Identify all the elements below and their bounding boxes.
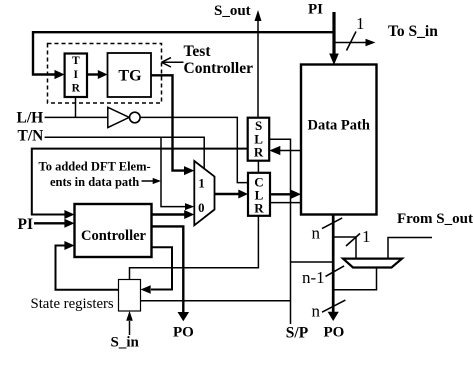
svg-text:State registers: State registers — [31, 296, 114, 312]
svg-text:0: 0 — [198, 201, 204, 215]
svg-text:To added DFT Elem-: To added DFT Elem- — [39, 160, 151, 174]
svg-text:Controller: Controller — [81, 228, 147, 244]
svg-text:R: R — [72, 83, 81, 95]
svg-text:Data Path: Data Path — [308, 117, 370, 133]
svg-text:T/N: T/N — [18, 128, 44, 145]
svg-text:n-1: n-1 — [302, 268, 325, 287]
svg-text:R: R — [254, 201, 264, 216]
svg-text:PI: PI — [308, 2, 323, 18]
svg-text:ents in data path: ents in data path — [50, 175, 139, 189]
svg-text:n: n — [312, 224, 321, 243]
svg-text:To S_in: To S_in — [388, 23, 438, 40]
svg-text:PO: PO — [173, 325, 194, 341]
svg-text:Controller: Controller — [184, 60, 254, 77]
svg-text:1: 1 — [198, 177, 204, 191]
svg-text:PO: PO — [324, 325, 345, 341]
svg-text:n: n — [312, 302, 321, 321]
svg-text:L/H: L/H — [17, 110, 44, 127]
svg-text:From S_out: From S_out — [397, 211, 473, 227]
svg-text:1: 1 — [362, 227, 371, 246]
svg-text:1: 1 — [356, 14, 365, 33]
svg-text:PI: PI — [18, 216, 34, 233]
svg-text:S_out: S_out — [214, 3, 251, 19]
svg-text:S/P: S/P — [286, 325, 309, 342]
svg-text:TG: TG — [118, 68, 142, 85]
svg-text:I: I — [74, 69, 79, 81]
svg-text:R: R — [254, 144, 264, 159]
svg-text:Test: Test — [184, 43, 212, 60]
svg-text:T: T — [72, 55, 80, 67]
svg-text:S_in: S_in — [111, 334, 140, 350]
